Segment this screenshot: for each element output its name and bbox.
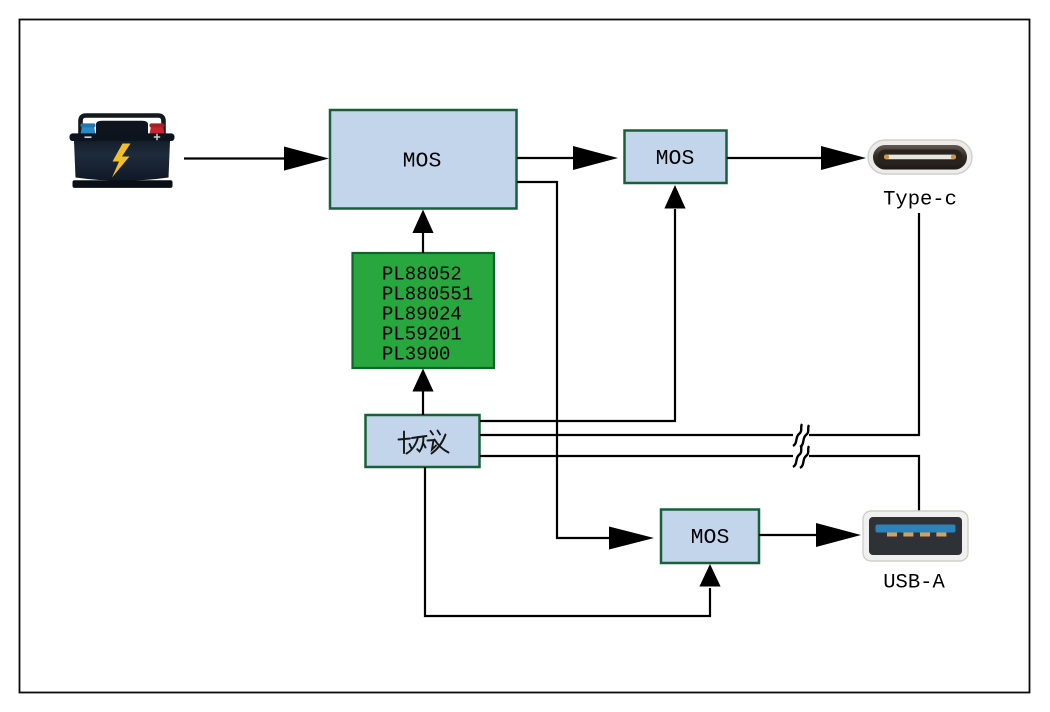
wire 协议 to U3 gate xyxy=(425,467,710,616)
wire 协议 to Type-C CC xyxy=(480,434,793,436)
arrowhead into USB-A xyxy=(816,523,861,547)
svg-text:MOS: MOS xyxy=(691,526,730,550)
svg-text:PL3900: PL3900 xyxy=(382,344,450,366)
wire battery to MOS U1 xyxy=(184,157,286,159)
chip list box PL series xyxy=(353,253,495,368)
arrowhead into Type-C xyxy=(821,146,866,170)
wire U3 to USB-A port xyxy=(759,534,817,536)
wire 协议 to U2 gate xyxy=(480,209,675,421)
arrowhead into U3 left xyxy=(609,527,654,550)
svg-text:MOS: MOS xyxy=(403,150,442,174)
arrowhead into U1 xyxy=(284,147,329,171)
wire U1 to MOS U2 xyxy=(517,157,575,159)
wire chip box to U1 xyxy=(422,231,424,253)
svg-text:Type-c: Type-c xyxy=(883,189,957,212)
MOS box U2 xyxy=(625,131,727,184)
arrowhead into U3 bottom xyxy=(699,564,720,587)
svg-text:PL89024: PL89024 xyxy=(382,304,462,326)
USB-A connector icon J2 xyxy=(863,511,968,561)
break symbol on Type-C wire xyxy=(793,424,809,447)
Type-C connector icon J1 xyxy=(868,140,972,174)
MOS box U1 xyxy=(330,110,517,209)
protocol box 协议 xyxy=(366,415,480,467)
arrowhead into U2 bottom xyxy=(664,185,685,209)
svg-text:PL880551: PL880551 xyxy=(382,284,473,306)
svg-text:MOS: MOS xyxy=(656,147,695,171)
svg-text:PL59201: PL59201 xyxy=(382,324,462,346)
arrowhead into U1 bottom xyxy=(412,210,433,234)
svg-text:USB-A: USB-A xyxy=(883,572,945,595)
wire U2 to Type-C port xyxy=(727,157,822,159)
glyph 协 xyxy=(399,432,427,454)
arrowhead into chip box bottom xyxy=(412,369,433,392)
glyph 议 xyxy=(428,431,449,454)
wire U1 to U3 input xyxy=(517,182,611,538)
arrowhead into U2 xyxy=(573,146,618,170)
wire 协议 to USB-A data xyxy=(480,455,793,457)
break symbol on USB-A wire xyxy=(793,445,809,468)
MOS box U3 xyxy=(661,510,759,564)
svg-text:PL88052: PL88052 xyxy=(382,264,462,286)
wire 协议 to chip box xyxy=(422,390,424,415)
battery icon BT1 xyxy=(70,116,175,188)
